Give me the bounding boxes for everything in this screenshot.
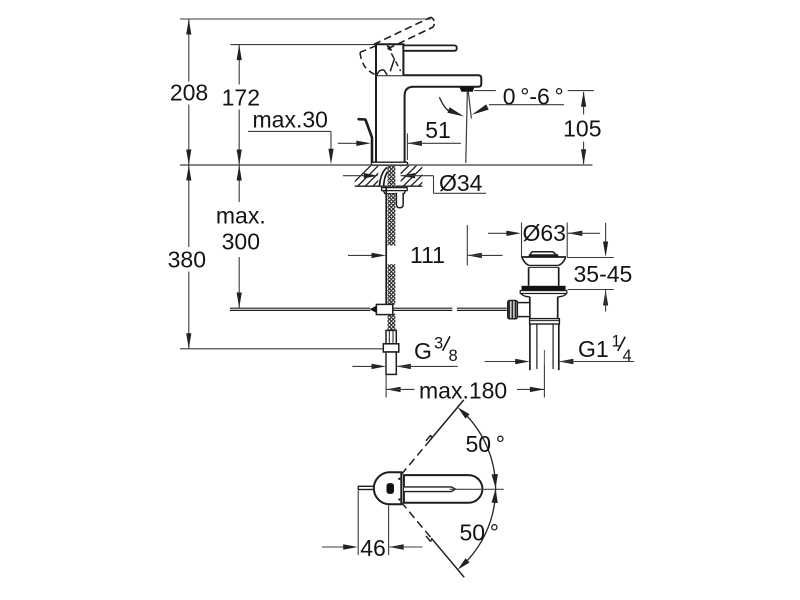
hose fitting tail tube (386, 352, 396, 374)
raised handle dashed knuckle left-bottom outline (360, 53, 376, 76)
knuckle inner solid diagonal a (388, 46, 391, 51)
111 extension line (stream axis) (466, 225, 468, 265)
top view centerline (450, 488, 504, 490)
0deg-6deg lower leader (489, 104, 564, 106)
drain centerline (543, 350, 545, 365)
35-45 arrow up (603, 290, 608, 306)
swivel arc left arrowhead (447, 107, 464, 116)
lower 50deg swing line solid part (431, 538, 464, 577)
dimension 172 arrow up (237, 45, 242, 61)
max180 arrow right (530, 387, 545, 392)
lower 50deg arc (461, 488, 496, 567)
svg-text:Ø34: Ø34 (439, 170, 483, 196)
max180 dimension line left (386, 388, 414, 390)
dimension 208 arrow down (186, 150, 191, 166)
drain tail pipe outer walls (529, 324, 531, 370)
drain neck funnel (522, 258, 565, 266)
51 arrow left at extension (407, 141, 422, 146)
diam63 dimension line right (568, 232, 600, 234)
dimension 208 arrow up (186, 19, 191, 35)
svg-text:50 °: 50 ° (460, 519, 499, 545)
water stream tilted line (468, 92, 471, 119)
max300 arrow down (237, 293, 242, 309)
380 bottom reference line (180, 348, 383, 350)
111 arrow right at hose (372, 253, 387, 258)
svg-text:max.: max. (216, 202, 266, 228)
hose fitting nut (383, 344, 399, 352)
knuckle inner dashed diagonal (raised edge) (387, 45, 400, 71)
handle knuckle (376, 44, 403, 75)
drain side port (516, 303, 529, 317)
35-45 dimension line upper (605, 223, 607, 242)
svg-text:35-45: 35-45 (574, 261, 633, 287)
svg-text:3: 3 (434, 334, 443, 352)
svg-text:0 °-6 °: 0 °-6 ° (503, 83, 564, 109)
drain collar (530, 319, 560, 324)
svg-text:208: 208 (170, 80, 208, 106)
svg-text:46: 46 (360, 535, 386, 561)
dimension 172 vertical line (238, 45, 240, 85)
G3-8 dimension line right / underline (396, 365, 457, 367)
dimension 380 vertical line (188, 165, 190, 247)
hose fitting threaded tube (386, 330, 396, 343)
faucet spout and body outline (376, 75, 481, 162)
diam34 arrow left (401, 173, 416, 178)
dimension 105 vertical line (583, 92, 585, 115)
upper arc end arrowhead (458, 407, 470, 418)
drain tail pipe inner walls (536, 324, 538, 369)
drain actuation knob (508, 300, 518, 318)
G1-1-4 dimension line right (559, 361, 634, 363)
lever bar (rest position) (403, 45, 456, 50)
upper arc centerline arrowhead (492, 474, 498, 488)
top view junction dot lower (398, 499, 400, 501)
G1-1-4 dimension line left (485, 361, 516, 363)
raised handle dashed lever lower edge (388, 27, 434, 49)
svg-text:105: 105 (563, 116, 601, 142)
drain o-ring seal (522, 286, 566, 291)
diam63 extension line left (521, 223, 523, 258)
diam63 arrow left (568, 231, 583, 236)
top view junction dot upper (398, 478, 400, 480)
max180 extension line left (385, 352, 387, 398)
380 arrow down (186, 333, 191, 349)
linkage rod middle segment (393, 307, 453, 309)
svg-text:max.30: max.30 (253, 106, 328, 132)
upper 50deg swing line solid part (428, 400, 464, 443)
linkage rod left segment (230, 307, 370, 309)
drain flange (520, 291, 567, 294)
drain plug dome (529, 252, 558, 257)
counter bottom line (355, 185, 423, 187)
locking washer below deck (382, 188, 408, 191)
G3-8 dimension line left (352, 365, 372, 367)
111 dimension line left (348, 254, 372, 256)
upper 50deg swing line dashed part (401, 442, 428, 474)
water stream vertical line (466, 92, 468, 163)
max180 extension line right (543, 365, 545, 398)
pop-up transmission rod below deck (385, 187, 387, 305)
top view lever slot (404, 487, 456, 492)
46 dimension line left (322, 546, 344, 548)
111 dimension line right (467, 254, 502, 256)
raised handle dashed knuckle top edge (360, 45, 378, 52)
46 arrow right (343, 544, 358, 549)
svg-text:max.180: max.180 (419, 377, 507, 403)
leader max.30 underline and drop (248, 130, 331, 132)
46 dimension line right (389, 546, 422, 548)
svg-text:380: 380 (168, 247, 206, 273)
lower arc end arrowhead (458, 558, 470, 569)
G3-8 fraction slash (443, 336, 450, 350)
svg-text:300: 300 (222, 228, 260, 254)
top view pop-up rod tab (358, 486, 373, 489)
lower 50deg swing line dashed part (401, 502, 431, 538)
svg-text:51: 51 (425, 117, 451, 143)
51 arrow right at rod (356, 141, 371, 146)
raised handle dashed tip cap (431, 17, 435, 27)
lower swing line break mark (426, 536, 432, 542)
pop-up rod above deck (359, 119, 372, 161)
46 extension line right (388, 506, 390, 556)
dimension 105 arrow down (581, 149, 586, 165)
svg-text:G: G (414, 338, 432, 364)
label 0deg-6deg leader left (474, 90, 495, 92)
knuckle bottom notch (377, 70, 387, 75)
drain valve body (529, 297, 531, 319)
aerator (459, 87, 474, 91)
max180 arrow left (386, 387, 401, 392)
drain top plate line (521, 256, 566, 258)
upper 50deg arc (461, 410, 496, 489)
linkage rod clevis nub (370, 306, 377, 313)
diam63 extension line right (566, 223, 568, 258)
swivel arc left (439, 97, 449, 111)
locking nut taper (383, 191, 405, 194)
35-45 dimension line lower (605, 290, 607, 312)
svg-text:8: 8 (449, 347, 458, 365)
51 dimension line left (338, 142, 357, 144)
hose curve inside hole (379, 167, 389, 186)
35-45 lower extension line (568, 289, 614, 291)
35-45 upper extension line (567, 257, 614, 259)
G1-1-4 arrow right (515, 359, 530, 364)
extension line top of handle (208 level) (180, 18, 431, 20)
knuckle inner solid diagonal b (390, 58, 394, 71)
top view cartridge mark (387, 483, 395, 494)
top view handle outline (404, 475, 483, 503)
linkage rod right segment (457, 307, 507, 309)
G3-8 arrow left (396, 364, 411, 369)
svg-text:Ø63: Ø63 (523, 220, 566, 246)
svg-text:4: 4 (623, 347, 632, 365)
diam34 jog line (401, 175, 434, 177)
35-45 arrow down (603, 242, 608, 258)
111 arrow left at stream axis (467, 253, 482, 258)
threaded shank in hole (388, 166, 396, 186)
G1-1-4 arrow left (559, 359, 574, 364)
lower arc centerline arrowhead (492, 489, 498, 503)
G3-8 arrow right (372, 364, 387, 369)
G1-1-4 fraction slash (618, 337, 625, 351)
shank stub tube (396, 193, 403, 208)
extension line top of lever (172 level) (231, 44, 377, 46)
diam63 dimension line left (488, 232, 507, 234)
svg-text:50 °: 50 ° (466, 431, 505, 457)
380 arrow up (186, 165, 191, 181)
flexible hose braided upper (388, 194, 396, 246)
counter top line (180, 164, 592, 166)
svg-text:111: 111 (410, 242, 445, 268)
raised handle dashed lever upper edge (374, 17, 431, 44)
leader max.30 arrow down (328, 149, 333, 165)
label 0deg-6deg leader right (568, 90, 594, 92)
dimension max300 vertical line (238, 165, 240, 202)
flexible hose braided lower (388, 314, 396, 331)
51 dimension line right (407, 142, 461, 144)
51 extension line (406, 134, 408, 161)
linkage rod clevis block (376, 304, 392, 314)
diam63 arrow right (506, 231, 521, 236)
diam34 arrow right (364, 173, 379, 178)
46 arrow left (389, 544, 404, 549)
flexible hose braided middle (388, 264, 396, 305)
max180 dimension line right (517, 388, 544, 390)
dimension 208 vertical line (188, 19, 190, 82)
dimension 172 arrow down (237, 150, 242, 166)
dimension 105 arrow up (581, 91, 586, 107)
faucet base plate (371, 162, 407, 165)
drain flange taper (521, 294, 566, 297)
counter hatched section (350, 165, 447, 186)
svg-text:G1: G1 (578, 336, 609, 362)
upper swing line break mark (426, 435, 432, 441)
46 extension line left (357, 491, 359, 556)
max300 arrow up (237, 165, 242, 181)
dimension diam34 line left (343, 175, 365, 177)
top view body outline (374, 472, 402, 504)
0deg-6deg lower leader arrowhead (472, 104, 489, 114)
drain upper cylinder (528, 267, 530, 286)
